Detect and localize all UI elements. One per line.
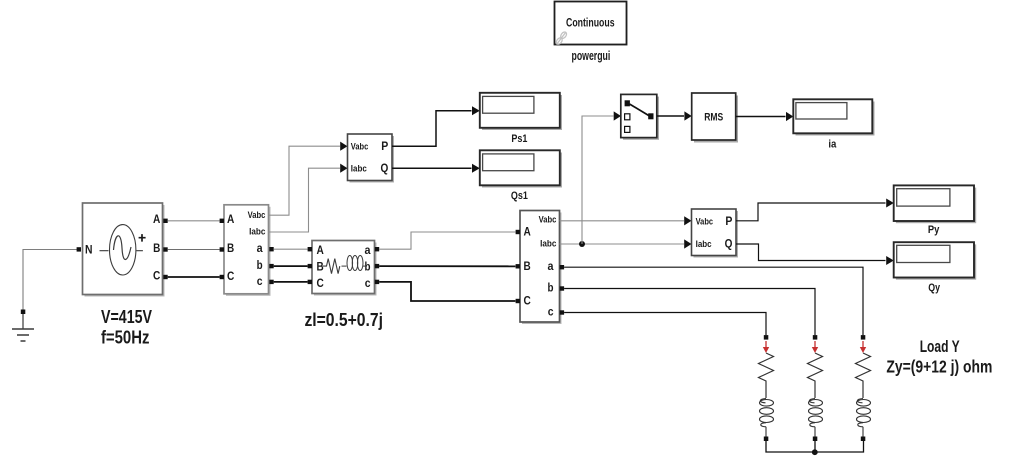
wire source C to meas1 C <box>168 276 220 278</box>
svg-text:Vabc: Vabc <box>696 216 714 227</box>
wire zl b to meas2 B <box>379 265 515 267</box>
arrow into power1 Vabc <box>340 142 347 151</box>
selector block <box>621 94 659 139</box>
svg-text:C: C <box>524 294 532 308</box>
svg-text:Ps1: Ps1 <box>511 133 527 145</box>
load2 series RLC branch <box>808 335 823 441</box>
junction neutral bus <box>812 449 818 455</box>
port meas1 b <box>269 264 273 268</box>
port meas2 c <box>560 310 564 314</box>
svg-text:Iabc: Iabc <box>540 238 556 249</box>
svg-text:ia: ia <box>828 139 837 151</box>
port meas1 C <box>220 275 224 279</box>
svg-text:a: a <box>548 261 555 273</box>
port meas1 A <box>220 219 224 223</box>
wire power2 Q to Qy <box>736 244 886 261</box>
port zl a <box>375 247 379 251</box>
svg-text:P: P <box>725 216 732 228</box>
wire meas1 a to zl A <box>274 248 308 250</box>
svg-text:B: B <box>153 241 160 255</box>
wire power1 P to Ps1 <box>392 111 472 147</box>
arrow into ia <box>786 112 793 121</box>
port meas2 B <box>516 264 520 268</box>
svg-text:Vabc: Vabc <box>539 215 557 226</box>
arrow into power2 Vabc <box>684 216 691 225</box>
port meas2 A <box>516 230 520 234</box>
source three-phase programmable voltage source <box>83 203 165 297</box>
wire meas1 b to zl B <box>274 265 308 267</box>
port source C <box>163 275 167 279</box>
port source N <box>77 247 81 251</box>
junction on Iabc wire <box>579 241 585 247</box>
arrow into selector <box>614 111 621 120</box>
svg-text:f=50Hz: f=50Hz <box>101 327 150 348</box>
wire power2 P to Py <box>736 203 886 221</box>
powergui block <box>555 2 628 46</box>
arrow into power1 Iabc <box>340 164 347 173</box>
port meas1 B <box>220 247 224 251</box>
svg-text:c: c <box>365 278 371 290</box>
zl three-phase series RLC branch block <box>312 241 377 296</box>
port zl B <box>308 264 312 268</box>
scope Qy <box>894 242 977 279</box>
wire meas1 Vabc to power1 Vabc <box>269 146 341 215</box>
svg-text:Q: Q <box>725 238 733 250</box>
port meas2 a <box>560 265 564 269</box>
port meas1 a <box>269 247 273 251</box>
meas1 three-phase V-I measurement block <box>224 205 271 296</box>
wire meas1 Iabc to power1 Iabc <box>269 168 341 232</box>
arrow into power2 Iabc <box>684 239 691 248</box>
svg-text:zl=0.5+0.7j: zl=0.5+0.7j <box>304 309 383 330</box>
svg-text:c: c <box>257 276 263 288</box>
arrow into RMS <box>684 111 691 120</box>
wire meas2 a to load3 <box>564 267 863 335</box>
scope Qs1 <box>480 150 562 187</box>
wire load2 to bus <box>814 441 816 452</box>
scope ia <box>793 99 874 135</box>
load1 series RLC branch <box>759 335 774 441</box>
load3 series RLC branch <box>856 335 871 441</box>
power1 3-phase instantaneous power block <box>348 134 395 183</box>
svg-text:Qy: Qy <box>928 282 940 294</box>
svg-text:Iabc: Iabc <box>696 239 712 250</box>
port meas1 c <box>269 280 273 284</box>
svg-text:Py: Py <box>928 224 940 236</box>
svg-text:Load Y: Load Y <box>920 337 960 356</box>
svg-text:B: B <box>227 241 234 255</box>
wire neutral bus <box>766 441 864 452</box>
svg-text:powergui: powergui <box>572 49 611 63</box>
svg-text:Continuous: Continuous <box>566 18 615 30</box>
svg-text:b: b <box>365 261 371 273</box>
svg-text:V=415V: V=415V <box>101 306 152 327</box>
wire zl c to meas2 C <box>379 282 515 301</box>
svg-text:N: N <box>85 242 93 256</box>
svg-text:b: b <box>548 282 554 294</box>
svg-text:A: A <box>317 243 325 257</box>
arrow into Qs1 <box>472 164 480 173</box>
scope Py <box>894 185 977 223</box>
wire meas2 b to load2 <box>564 289 815 336</box>
port ground <box>21 310 26 315</box>
wire RMS to ia <box>736 116 786 118</box>
svg-text:Qs1: Qs1 <box>511 190 528 202</box>
port meas2 b <box>560 286 564 290</box>
arrow into Py <box>886 199 894 208</box>
port source A <box>163 219 167 223</box>
meas2 three-phase V-I measurement block <box>520 211 562 325</box>
svg-text:A: A <box>227 212 235 226</box>
port zl A <box>308 247 312 251</box>
svg-text:a: a <box>365 245 372 257</box>
svg-text:C: C <box>317 276 325 290</box>
wire source A to meas1 A <box>168 220 220 222</box>
svg-text:a: a <box>257 243 264 255</box>
svg-text:P: P <box>381 141 388 153</box>
port zl C <box>308 280 312 284</box>
svg-text:c: c <box>548 306 554 318</box>
svg-text:Vabc: Vabc <box>248 210 266 221</box>
svg-text:Zy=(9+12 j) ohm: Zy=(9+12 j) ohm <box>886 357 992 377</box>
svg-text:Vabc: Vabc <box>351 142 369 153</box>
arrow into Ps1 <box>472 106 480 115</box>
RMS block <box>692 93 738 143</box>
wire meas2 Vabc to power2 Vabc <box>560 220 685 222</box>
svg-text:C: C <box>153 269 161 283</box>
wire meas2 c to load1 <box>564 313 766 336</box>
ground <box>12 314 34 341</box>
wire junction to selector <box>582 116 614 244</box>
wire N to ground <box>23 250 78 310</box>
port meas2 C <box>516 299 520 303</box>
wire selector to RMS <box>657 115 684 117</box>
arrow into Qy <box>886 256 894 265</box>
scope Ps1 <box>480 93 562 130</box>
wire meas1 c to zl C <box>274 281 308 283</box>
wire power1 Q to Qs1 <box>392 167 472 169</box>
port source B <box>163 247 167 251</box>
svg-text:b: b <box>257 260 263 272</box>
svg-text:Q: Q <box>381 163 389 175</box>
svg-text:B: B <box>524 259 531 273</box>
svg-text:RMS: RMS <box>704 112 723 124</box>
wire source B to meas1 B <box>168 249 220 251</box>
svg-text:A: A <box>153 212 161 226</box>
svg-text:A: A <box>524 225 532 239</box>
port zl c <box>375 280 379 284</box>
svg-text:Iabc: Iabc <box>351 164 367 175</box>
power2 3-phase instantaneous power block <box>692 209 739 258</box>
svg-text:Iabc: Iabc <box>249 227 265 238</box>
port zl b <box>375 264 379 268</box>
svg-text:C: C <box>227 269 235 283</box>
wire meas2 Iabc to power2 Iabc <box>560 243 685 245</box>
wire zl a to meas2 A <box>379 232 515 249</box>
